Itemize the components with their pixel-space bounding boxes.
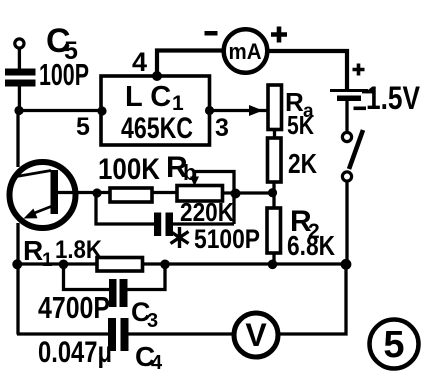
battery minus label [354, 107, 367, 111]
pin 5 dot [97, 106, 106, 115]
svg-text:4: 4 [151, 352, 163, 374]
label L C1 [125, 81, 184, 115]
capacitor C4 [108, 318, 129, 351]
wire bottom rail y334 left [17, 332, 109, 335]
resistor R1 [97, 258, 143, 272]
node E junction dot [231, 189, 241, 199]
label C5 [46, 22, 78, 65]
transistor Q1 collector line [14, 171, 52, 178]
resistor R2 [267, 208, 281, 253]
capacitor C3 [109, 279, 128, 307]
svg-text:465KC: 465KC [121, 112, 193, 145]
svg-text:100P: 100P [39, 57, 89, 92]
potentiometer Rb body [177, 186, 223, 202]
svg-text:3: 3 [147, 310, 158, 332]
wire base lead Q1 to node C [58, 191, 110, 194]
label Ra [285, 87, 314, 122]
wire mA to battery top [268, 51, 347, 90]
transistor Q1 circle [10, 162, 76, 228]
label R1 [23, 235, 53, 271]
label C3 [131, 297, 158, 332]
svg-text:5K: 5K [287, 110, 314, 140]
node R2 bottom junction dot [268, 260, 278, 270]
wire 2K to R2 through node D [272, 182, 275, 208]
wire pin 3 to Ra with arrow [209, 105, 268, 116]
node A junction dot [14, 106, 23, 115]
wire voltmeter to right rail [278, 262, 346, 334]
svg-text:R: R [23, 235, 43, 266]
label plus (mA right) [271, 27, 287, 43]
svg-text:100K: 100K [98, 153, 160, 186]
svg-text:4: 4 [132, 47, 147, 77]
wire Ra to 2K [273, 130, 276, 139]
wire C5 to node A [18, 86, 21, 110]
switch S1 lever [349, 130, 363, 169]
wire battery to switch [345, 101, 348, 133]
capacitor C5 [5, 69, 36, 87]
badge circled 5 [370, 320, 419, 369]
pin 3 dot [205, 106, 214, 115]
wire bottom rail y264 left [17, 262, 98, 265]
wire C6 to node E [172, 222, 234, 225]
potentiometer Rb wiper arrow [190, 172, 199, 187]
svg-text:5100P: 5100P [194, 224, 260, 254]
svg-text:2K: 2K [288, 148, 317, 179]
wire switch to node H [345, 181, 348, 265]
ammeter U2 mA circle [224, 29, 268, 73]
label R2 [290, 205, 320, 243]
voltmeter U3 circle [234, 313, 278, 357]
transistor Q1 base bar [51, 170, 59, 214]
node B junction dot [12, 259, 22, 269]
wire node F down to C3 [64, 264, 111, 290]
wire node A to pin 5 [19, 109, 103, 112]
wire left rail lower (transistor to node B) [16, 223, 19, 335]
label minus (mA left) [205, 31, 218, 36]
svg-text:0.047μ: 0.047μ [38, 336, 112, 369]
svg-text:4700P: 4700P [38, 290, 110, 325]
svg-text:1: 1 [42, 250, 53, 271]
node C junction dot [92, 188, 101, 197]
svg-text:mA: mA [229, 39, 262, 64]
wire T1 to C5 [18, 48, 21, 69]
node G junction dot [160, 260, 170, 270]
battery plus label [353, 64, 365, 76]
svg-text:6.8K: 6.8K [287, 230, 335, 261]
label Rb [166, 151, 196, 185]
terminal T1 (top-left open circle) [15, 39, 24, 48]
wire left rail upper (node A to transistor) [16, 111, 19, 168]
node D junction dot [268, 188, 277, 197]
svg-text:1.5V: 1.5V [366, 80, 421, 116]
resistor 100K [110, 188, 152, 202]
wire C4 to voltmeter [129, 332, 234, 335]
wire Rb right to node D [222, 191, 272, 194]
resistor 2K [268, 138, 282, 182]
wire pin 4 to mA meter [157, 51, 223, 77]
wire R2 to bottom rail [272, 253, 275, 264]
wire 100K to Rb [152, 191, 177, 194]
svg-text:5: 5 [383, 324, 404, 366]
IC U1 LC1 box [101, 76, 210, 145]
resistor Ra [268, 85, 282, 130]
svg-text:V: V [245, 317, 267, 353]
battery dash artifact [362, 90, 373, 93]
battery BT1 plates [330, 89, 368, 101]
switch S1 top contact [342, 132, 351, 141]
wire wiper to node E [195, 172, 235, 225]
svg-text:L C: L C [125, 81, 171, 113]
capacitor C6 5100P [154, 213, 173, 237]
transistor Q1 emitter line with arrow [24, 207, 52, 219]
svg-text:5: 5 [76, 113, 90, 141]
wire C3 to node G [128, 264, 166, 290]
label star [171, 227, 189, 248]
svg-text:3: 3 [215, 114, 229, 142]
node H junction dot [341, 259, 352, 270]
pin 4 dot [152, 71, 162, 81]
node F junction dot [59, 260, 69, 270]
label C4 [135, 341, 163, 374]
wire node C down to capacitor C6 [96, 193, 155, 224]
switch S1 bottom contact [342, 172, 351, 181]
wire bottom rail y264 right [142, 262, 347, 265]
